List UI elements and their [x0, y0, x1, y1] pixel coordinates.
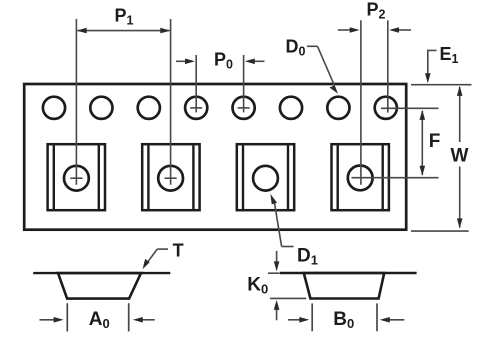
dimension W line lower	[457, 167, 463, 229]
top edge extension line	[411, 84, 472, 86]
svg-text:P0: P0	[214, 50, 233, 72]
label P1	[115, 6, 134, 28]
pocket 2	[142, 144, 199, 210]
svg-text:E1: E1	[440, 44, 459, 66]
B0 right arrow	[380, 317, 405, 323]
svg-text:P1: P1	[115, 6, 134, 28]
svg-text:W: W	[451, 145, 469, 166]
B0 left arrow	[288, 317, 309, 323]
sprocket hole 1	[43, 97, 65, 119]
sprocket hole 5	[233, 97, 255, 119]
label P0	[214, 50, 233, 72]
K0 surface extension line	[268, 272, 280, 274]
dimension P2 extension line right	[387, 20, 389, 112]
sprocket hole 7	[327, 97, 349, 119]
sprocket center extension line	[381, 107, 439, 109]
dimension P2 right arrow	[389, 27, 411, 33]
D1 leader line	[270, 194, 293, 247]
left section pocket trapezoid	[58, 273, 141, 299]
label A0	[89, 309, 110, 331]
label K0	[247, 274, 268, 296]
dimension P1 extension line left	[70, 19, 82, 185]
svg-text:K0: K0	[247, 274, 268, 296]
dimension P0 right arrow	[245, 59, 265, 65]
dimension P0 left arrow	[176, 59, 195, 65]
right section pocket trapezoid	[304, 273, 384, 299]
label D0	[286, 37, 306, 59]
sprocket hole 3	[138, 97, 160, 119]
left section surface line	[33, 272, 170, 274]
dimension P0 extension line right	[243, 55, 245, 112]
sprocket hole 4	[185, 97, 207, 119]
pocket 1	[48, 144, 105, 210]
A0 right arrow	[133, 317, 155, 323]
pocket center extension line	[352, 177, 439, 179]
carrier tape outline	[24, 84, 406, 230]
pocket 4	[332, 144, 389, 210]
label F	[429, 131, 441, 152]
B0 extension line left	[311, 303, 313, 331]
K0 bottom arrow	[274, 300, 280, 320]
label T	[173, 240, 184, 260]
T leader line	[143, 249, 168, 269]
A0 extension line right	[128, 303, 130, 331]
label B0	[333, 309, 354, 331]
D0 leader line	[307, 46, 338, 94]
sprocket hole 2	[90, 97, 112, 119]
dimension P1 extension line right	[165, 19, 177, 185]
K0 top arrow	[274, 251, 280, 272]
dimension P2 extension line left	[360, 20, 362, 185]
svg-text:A0: A0	[89, 309, 110, 331]
svg-text:D0: D0	[286, 37, 306, 59]
dimension P2 left arrow	[338, 27, 360, 33]
dimension F line	[420, 110, 426, 176]
K0 bottom extension line	[270, 297, 306, 299]
right section surface line	[280, 272, 417, 274]
dimension W line upper	[457, 86, 463, 142]
svg-text:B0: B0	[333, 309, 354, 331]
sprocket hole 6	[280, 97, 302, 119]
dimension P1 arrow line	[77, 28, 171, 34]
pocket 3	[237, 144, 294, 210]
A0 extension line left	[66, 303, 68, 331]
B0 extension line right	[376, 303, 378, 331]
svg-text:D1: D1	[297, 246, 318, 268]
bottom edge extension line	[411, 230, 469, 232]
label E1	[440, 44, 459, 66]
label P2	[367, 0, 386, 22]
svg-text:F: F	[429, 131, 441, 152]
svg-text:P2: P2	[367, 0, 386, 22]
dimension E1 bracket and arrow	[425, 50, 437, 83]
label W	[451, 145, 469, 166]
A0 left arrow	[40, 317, 64, 323]
dimension P0 extension line left	[195, 55, 197, 112]
sprocket hole 8	[375, 97, 397, 119]
svg-text:T: T	[173, 240, 184, 260]
label D1	[297, 246, 318, 268]
